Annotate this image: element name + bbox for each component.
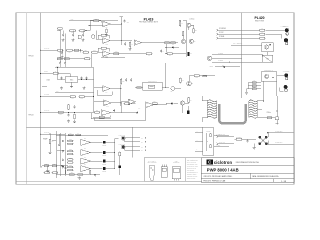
svg-text:10K: 10K <box>172 44 174 46</box>
diode D20 <box>270 44 271 46</box>
wire U4A out <box>110 88 121 90</box>
title row divider 3 <box>201 178 294 180</box>
svg-text:P/ PL417: P/ PL417 <box>44 48 49 50</box>
svg-text:PONTE: PONTE <box>206 130 210 132</box>
svg-text:0R22: 0R22 <box>69 149 72 151</box>
svg-text:MUTE: MUTE <box>44 71 48 73</box>
resistor R73 <box>51 163 57 166</box>
wire lamp right <box>175 87 181 89</box>
svg-text:VM: VM <box>141 138 143 140</box>
svg-text:REDE: REDE <box>210 66 214 68</box>
wire vert rail D <box>93 67 95 112</box>
ground G3b <box>128 47 131 50</box>
svg-text:2N3055: 2N3055 <box>102 164 106 166</box>
wire reg gnd stub <box>71 82 73 84</box>
resistor R54 <box>67 149 74 152</box>
svg-text:-50V: -50V <box>56 91 59 93</box>
wire U7 out long <box>154 104 167 106</box>
ground G12 <box>82 87 85 90</box>
resistor R20 vertical <box>120 78 125 84</box>
wire vert A-D link <box>91 54 93 67</box>
wire +VCC top rail <box>69 19 118 21</box>
svg-text:2N3055: 2N3055 <box>102 155 106 157</box>
wire B2 mid <box>57 149 65 151</box>
svg-text:47K: 47K <box>68 52 70 54</box>
resistor R27 feedback <box>99 116 104 118</box>
capacitor C31 <box>64 167 66 170</box>
legend divider <box>185 158 187 182</box>
svg-text:P/ REDE 220V: P/ REDE 220V <box>275 131 283 133</box>
svg-text:10K: 10K <box>86 56 88 58</box>
wire bottom row B <box>135 53 146 55</box>
capacitor C15 <box>125 78 127 82</box>
capacitor C10 <box>59 61 61 65</box>
transistor Q8 <box>91 35 95 39</box>
wire H top row <box>56 134 108 136</box>
svg-text:100K: 100K <box>80 98 83 100</box>
wire diode link <box>166 46 172 48</box>
resistor R26 <box>78 96 85 100</box>
ground G5 <box>105 33 108 36</box>
jack J2 wire <box>277 74 284 76</box>
connector arrow K1 <box>217 135 219 137</box>
svg-text:(+VCC): (+VCC) <box>190 18 195 20</box>
svg-text:+VCC: +VCC <box>70 19 73 21</box>
resistor R10 vertical <box>179 21 183 27</box>
wire vcc rail right <box>183 19 187 21</box>
resistor R75 <box>52 172 58 174</box>
wire into contact <box>135 86 143 88</box>
resistor R37 <box>57 56 62 59</box>
ground G20 <box>245 91 248 94</box>
transistor Q20 <box>264 45 268 49</box>
op-amp U4A <box>103 86 111 94</box>
wire fuse vert <box>276 96 278 117</box>
diode D11 <box>210 144 212 148</box>
capacitor C16 <box>130 78 132 82</box>
resistor R31 <box>193 75 200 79</box>
wire K out 1 <box>268 132 294 134</box>
resistor R17 feedback <box>100 34 107 36</box>
fuse F1 <box>267 117 272 119</box>
resistor R52 <box>67 139 74 142</box>
resistor R12 vertical <box>182 31 184 36</box>
wire B2 vert2 <box>58 134 60 144</box>
svg-text:P/ MUTE: P/ MUTE <box>44 94 49 96</box>
wire supply rail bottom <box>55 92 94 94</box>
svg-text:ciclotron: ciclotron <box>214 160 233 165</box>
resistor R56 <box>67 157 74 160</box>
wire U5 out <box>111 112 121 114</box>
ground G7 <box>73 120 76 123</box>
wire U1C out <box>110 53 135 55</box>
resistor R16 vertical <box>106 29 108 34</box>
wire primary lead top <box>202 100 207 102</box>
wire secondary tap1 <box>257 100 263 102</box>
svg-text:2N3055: 2N3055 <box>102 171 106 173</box>
wire long vertical bus at left <box>40 13 42 168</box>
op-amp U5 <box>101 110 111 116</box>
resistor R21 <box>124 101 131 104</box>
svg-text:nao indicado.: nao indicado. <box>187 170 195 172</box>
svg-text:esquema com mul-: esquema com mul- <box>187 176 198 178</box>
capacitor C24 <box>94 174 96 176</box>
switch CH1 contacts <box>259 136 262 139</box>
svg-text:P/PL418: P/PL418 <box>29 56 34 58</box>
resistor R72 <box>43 163 49 166</box>
wire B2 join <box>41 166 43 168</box>
transistor Q6 <box>181 101 185 105</box>
wire U1B input <box>96 38 103 40</box>
svg-text:1K: 1K <box>261 32 263 34</box>
capacitor C22 <box>62 159 64 161</box>
wire F vert1 <box>247 82 249 88</box>
wire F vert2 <box>263 81 265 101</box>
connector OUT2 <box>122 146 125 149</box>
resistor R7 <box>66 49 73 53</box>
svg-text:10K: 10K <box>59 30 61 32</box>
op-amp U1B <box>103 38 111 46</box>
resistor R70 vertical <box>49 138 54 145</box>
wire row2 cont <box>73 49 83 51</box>
resistor R36 <box>203 75 207 77</box>
resistor R7b <box>74 49 78 51</box>
transistor Q31 power <box>103 151 106 154</box>
wire G31 stub <box>47 166 49 170</box>
wire Q6 down <box>182 105 184 113</box>
resistor R30 vertical <box>179 77 184 83</box>
resistor R25 <box>69 96 76 100</box>
transformer T1 secondary winding <box>249 100 258 118</box>
svg-text:NE: NE <box>171 91 173 93</box>
node F1 <box>272 77 273 78</box>
resistor R43 <box>251 80 257 83</box>
wire stage 2 out <box>91 152 103 154</box>
wire long horizontal section boundary <box>26 126 203 128</box>
svg-text:47K: 47K <box>126 101 128 103</box>
op-amp U7 <box>146 102 154 108</box>
capacitor C40 <box>246 140 248 143</box>
transistor pair driver 1 <box>81 140 91 146</box>
svg-text:10K: 10K <box>69 133 71 135</box>
connector arrow row C2 <box>217 33 219 35</box>
ground G40 <box>253 146 256 149</box>
svg-text:P/ CLIP: P/ CLIP <box>219 32 224 34</box>
wire row C4 <box>212 54 263 56</box>
svg-text:PL420: PL420 <box>255 16 265 20</box>
wire row C1 <box>218 29 259 31</box>
wire stage 1 out <box>91 141 103 143</box>
resistor R3 <box>69 30 76 34</box>
wire relay link <box>267 52 269 56</box>
svg-text:SUPERIOR: SUPERIOR <box>173 162 179 164</box>
wire bus to out <box>115 138 119 140</box>
svg-text:1K: 1K <box>254 87 256 89</box>
svg-text:10K: 10K <box>60 114 62 116</box>
svg-text:RELE / FONTE: RELE / FONTE <box>255 21 264 23</box>
resistor R45 <box>251 87 257 90</box>
wire U4B out <box>111 102 121 104</box>
resistor R57 <box>67 162 74 164</box>
transistor Q1 <box>187 23 193 27</box>
connector OUT1 <box>122 137 125 140</box>
resistor R40 <box>259 28 266 31</box>
resistor R4 <box>79 30 86 34</box>
transistor Q2 <box>182 39 186 43</box>
svg-text:1K: 1K <box>54 163 56 165</box>
lamp NE1 <box>171 87 175 91</box>
capacitor C2 <box>72 33 74 37</box>
svg-text:P/ PL417: P/ PL417 <box>44 110 49 112</box>
diode D1 <box>172 46 174 48</box>
resistor R24 <box>94 110 100 113</box>
capacitor C17 <box>113 109 115 112</box>
svg-text:10K: 10K <box>71 172 73 174</box>
resistor R80 <box>235 137 243 140</box>
resistor R2 <box>57 28 63 32</box>
jack J1 <box>284 73 288 77</box>
svg-text:TIP: TIP <box>84 138 86 140</box>
logo ciclotron box <box>206 160 213 165</box>
capacitor C13 <box>80 77 82 80</box>
resistor R50 <box>67 133 74 136</box>
wire K vert1 <box>267 133 269 138</box>
wire F rows <box>248 81 261 83</box>
wire out of contact <box>162 86 169 88</box>
wire input row 1 <box>57 30 61 32</box>
wire R1 loop <box>90 20 92 22</box>
sheet border inner bottom margin line <box>16 180 202 182</box>
svg-text:0R22: 0R22 <box>69 165 72 167</box>
svg-text:10K: 10K <box>51 141 53 143</box>
LED LD2 <box>284 38 288 42</box>
wire B2 top <box>41 133 65 135</box>
title sheet divider <box>273 179 275 183</box>
title block outline <box>201 158 294 183</box>
capacitor C20 <box>62 140 64 142</box>
wire Q1 emitter <box>188 27 190 30</box>
svg-text:1K: 1K <box>261 28 263 30</box>
wire G40 stub <box>253 144 255 147</box>
capacitor C5 <box>160 49 164 52</box>
diode D6 <box>61 165 62 167</box>
svg-text:1K: 1K <box>181 23 183 25</box>
wire liga-desliga <box>231 44 262 46</box>
ground G30 <box>78 177 81 180</box>
wire out2 a <box>125 146 141 148</box>
AC connector box <box>261 72 277 81</box>
capacitor C19 <box>67 114 69 117</box>
resistor R59 <box>67 169 74 171</box>
wire primary lead bottom <box>202 117 207 119</box>
svg-text:4K7: 4K7 <box>169 55 171 57</box>
svg-text:TIP: TIP <box>84 164 86 166</box>
resistor R58 <box>67 165 74 168</box>
resistor R63 vertical <box>119 151 121 156</box>
fuse holder circle <box>275 117 278 120</box>
wire to U1C <box>98 51 103 53</box>
resistor R28 vertical <box>68 104 70 110</box>
diode D5 <box>224 66 225 68</box>
ground G3 <box>81 38 84 41</box>
resistor R8 <box>82 50 89 53</box>
resistor R32 vertical <box>188 97 192 103</box>
label master row <box>101 57 125 59</box>
svg-text:PL419: PL419 <box>144 17 154 21</box>
op-amp U2 <box>134 40 141 45</box>
op-amp U4B <box>104 100 112 108</box>
svg-text:220K: 220K <box>195 77 198 79</box>
wire secondary tap3 <box>257 117 264 119</box>
resistor R38 <box>64 58 69 60</box>
wire B2 down <box>65 170 67 174</box>
svg-text:220Vca: 220Vca <box>267 112 272 114</box>
connector arrow K2 <box>217 143 219 145</box>
op-amp U1A <box>103 21 111 29</box>
resistor R33 <box>152 101 157 104</box>
svg-text:P/ REDE: P/ REDE <box>218 53 223 55</box>
wire F row3 <box>248 88 261 90</box>
svg-text:1K: 1K <box>46 170 48 172</box>
wire out right path <box>120 102 122 113</box>
wire K1 <box>218 135 234 137</box>
svg-text:2K2: 2K2 <box>93 50 95 52</box>
resistor R6 <box>57 49 64 53</box>
wire D3 to Q6 <box>173 102 178 104</box>
capacitor C23 <box>62 166 64 168</box>
ground G4 <box>60 56 63 59</box>
wire row C1 b <box>266 29 285 31</box>
capacitor C12 <box>60 77 62 80</box>
package TO-220 outline <box>161 167 167 178</box>
node B2x <box>63 165 64 166</box>
svg-text:TIP: TIP <box>84 157 86 159</box>
wire H right vert <box>119 157 121 175</box>
resistor R34 <box>137 87 142 89</box>
transistor pair driver 4 <box>81 166 91 172</box>
wire bridge out 1 <box>214 135 229 137</box>
wire K vert2 <box>267 141 269 145</box>
svg-text:1 - 98: 1 - 98 <box>281 181 286 183</box>
wire rail H1 <box>55 131 57 178</box>
wire out1 a <box>125 137 141 139</box>
wire stage 1 to bus <box>106 141 115 143</box>
wire K2 <box>218 143 234 145</box>
wire Q2 collector <box>182 36 184 39</box>
capacitor C30 <box>58 143 60 146</box>
wire stage 2 to bus <box>106 152 115 154</box>
svg-text:1K: 1K <box>55 71 57 73</box>
relay driver box <box>262 43 273 52</box>
resistor R55 <box>67 153 74 155</box>
wire E top right <box>201 75 215 77</box>
resistor R23 <box>57 111 64 115</box>
svg-text:1K: 1K <box>131 44 133 46</box>
transistor Q32 power <box>103 160 106 163</box>
ground G10 <box>60 87 63 90</box>
wire row C2 <box>218 33 259 35</box>
wire U1A input left <box>88 25 103 27</box>
svg-text:+15V: +15V <box>126 21 129 23</box>
wire rail H3 <box>64 133 66 176</box>
svg-text:PWP 8000 / 4AB: PWP 8000 / 4AB <box>207 168 239 173</box>
svg-text:LED PWR: LED PWR <box>283 26 289 28</box>
LED LD1 <box>285 28 289 32</box>
resistor R1 feedback <box>92 19 100 22</box>
wire input row 2 <box>41 49 58 51</box>
resistor R5 vertical <box>129 41 133 47</box>
wire supply rail top <box>55 66 94 68</box>
wire vcc to PL420 <box>215 66 240 68</box>
svg-text:res em OHM. Capa-: res em OHM. Capa- <box>187 165 199 167</box>
transistor Q33 power <box>103 167 106 170</box>
resistor R22 <box>52 71 59 74</box>
wire secondary tap2 <box>257 108 262 110</box>
diode D7 <box>119 165 121 168</box>
resistor R13 <box>145 53 152 57</box>
transformer core <box>219 104 246 123</box>
wire H bottom row <box>56 173 100 175</box>
wire U1B output <box>110 40 132 42</box>
resistor R9 <box>91 50 98 53</box>
wire K mid <box>243 138 256 140</box>
wire R11 link <box>191 24 194 26</box>
wire bridge out 2 <box>214 146 229 148</box>
resistor R44 <box>251 85 257 87</box>
wire supply vert 2 <box>64 34 66 63</box>
wire d-right rail <box>120 85 122 106</box>
diode D2 <box>137 112 138 114</box>
svg-text:P/ PL417: P/ PL417 <box>44 132 49 134</box>
svg-text:P/PL418: P/PL418 <box>29 115 34 117</box>
wire vert mid B <box>165 44 167 53</box>
wire rail H2 <box>60 133 62 176</box>
svg-text:10K: 10K <box>95 19 97 21</box>
mark below fuse <box>276 120 278 125</box>
wire row 58 <box>57 58 84 60</box>
connector arrow row C1 <box>217 29 219 31</box>
wire U4B in <box>94 100 104 102</box>
wire U4A in <box>94 86 103 88</box>
fuse F1 wire <box>265 117 276 119</box>
wire R32 link <box>185 102 189 104</box>
capacitor C21 <box>62 150 64 152</box>
wire R10 top <box>179 19 181 21</box>
regulator U3 box <box>65 77 78 83</box>
wire bridge in 1 <box>195 132 203 134</box>
capacitor C6 <box>123 20 125 23</box>
wire feedback U5 <box>93 116 110 118</box>
package TO-3 outline <box>149 166 154 181</box>
capacitor C1 <box>62 33 64 37</box>
resistor R74 <box>44 170 50 173</box>
wire mute cont <box>59 72 70 74</box>
svg-text:0R22: 0R22 <box>69 157 72 159</box>
svg-text:TIP: TIP <box>84 148 86 150</box>
svg-text:U1B: U1B <box>105 44 107 46</box>
wire bridge in 2 <box>195 141 203 143</box>
wire reg output <box>78 79 94 81</box>
wire vertical drop to legend box <box>131 127 133 157</box>
jack J3 <box>284 85 288 89</box>
title row divider 1 <box>201 164 294 166</box>
wire out2 b <box>125 149 141 151</box>
transistor Q3 <box>187 52 189 56</box>
svg-text:10K: 10K <box>72 98 74 100</box>
wire stub left <box>42 85 47 87</box>
wire stage 4 out <box>91 168 103 170</box>
wire U4A feedback <box>97 94 112 96</box>
